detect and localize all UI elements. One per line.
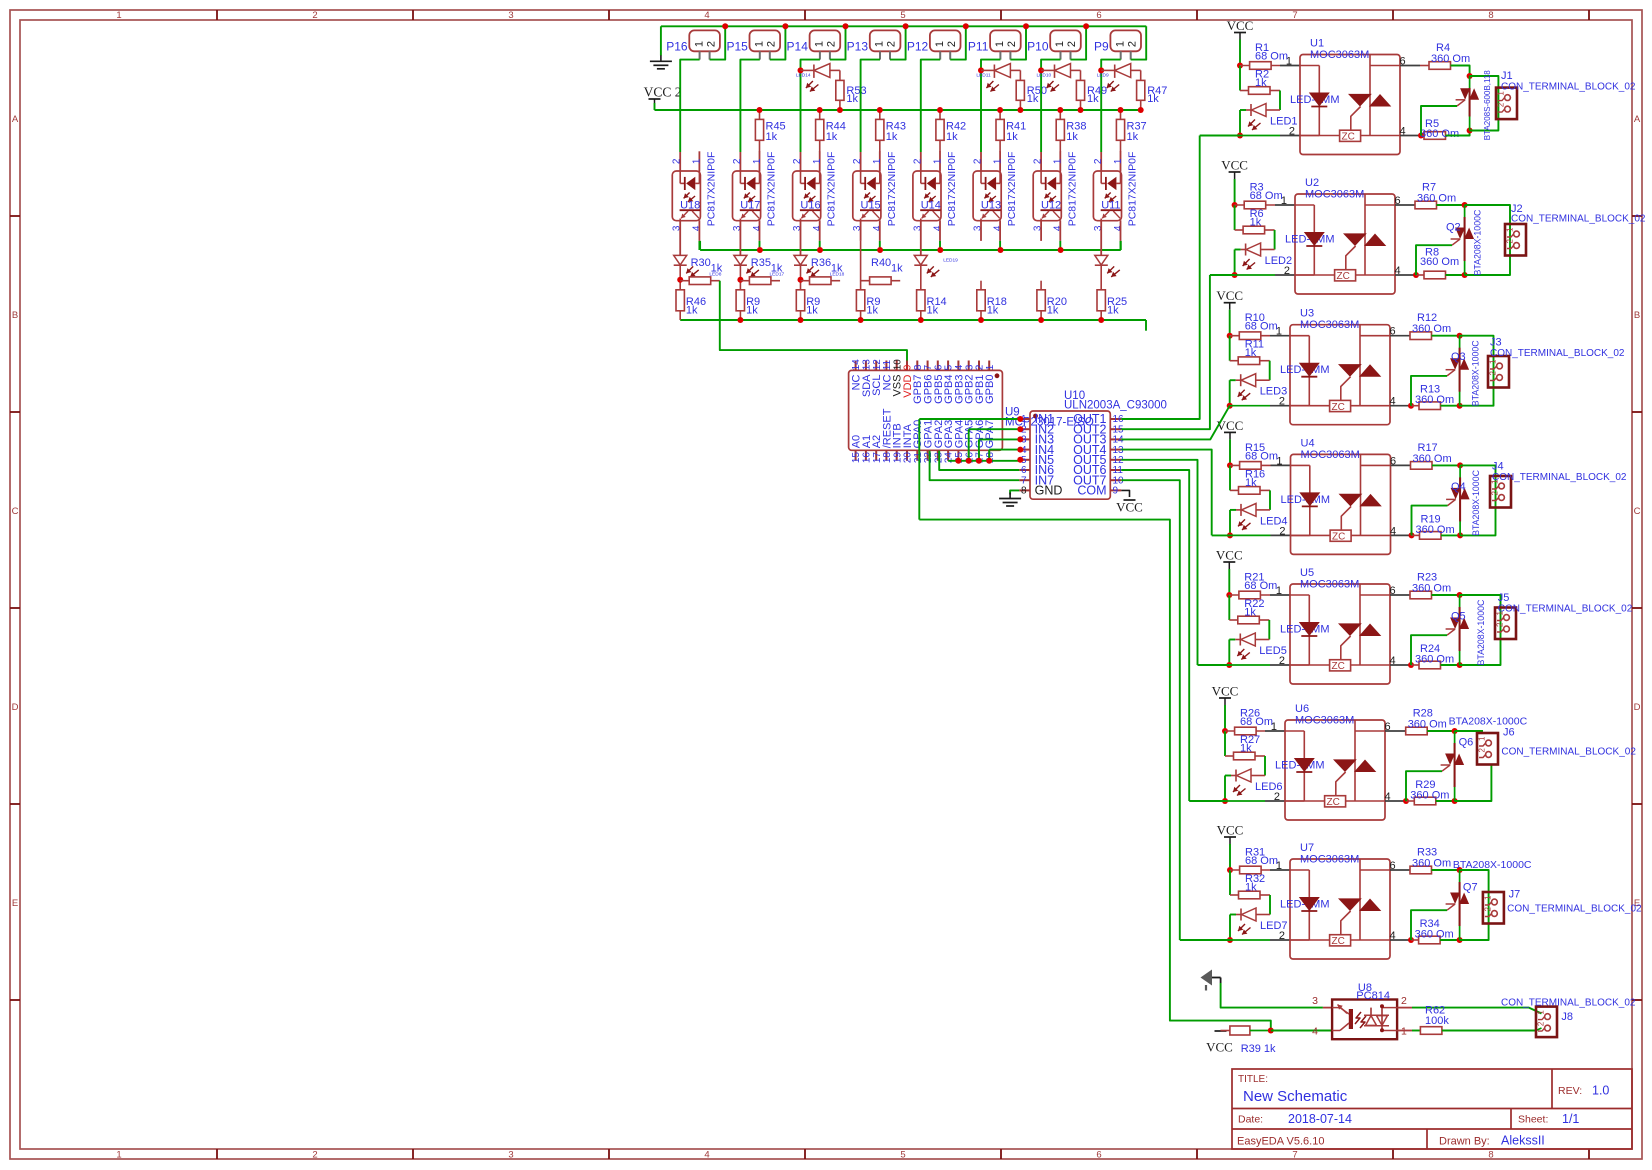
svg-text:68 Om: 68 Om [1255,51,1288,63]
svg-text:U6: U6 [1295,703,1309,715]
svg-text:2: 2 [946,41,958,47]
svg-text:J5: J5 [1498,592,1510,604]
svg-text:ZC: ZC [1327,797,1340,808]
svg-text:360 Om: 360 Om [1410,790,1449,802]
svg-text:LED9: LED9 [1097,72,1109,78]
svg-text:GPA7: GPA7 [984,420,996,449]
svg-text:2018-07-14: 2018-07-14 [1288,1112,1352,1126]
svg-text:VCC: VCC [1116,500,1143,515]
svg-text:360 Om: 360 Om [1417,193,1456,205]
svg-text:68 Om: 68 Om [1240,716,1273,728]
svg-text:J1: J1 [1501,70,1513,82]
svg-text:AlekssII: AlekssII [1501,1134,1545,1148]
svg-text:PC817X2NIP0F: PC817X2NIP0F [1006,152,1018,227]
svg-text:6: 6 [1400,56,1406,68]
svg-text:6: 6 [1390,585,1396,597]
svg-text:PC817X2NIP0F: PC817X2NIP0F [705,152,717,227]
svg-text:1k: 1k [927,305,939,317]
svg-text:B: B [12,310,18,321]
svg-text:Sheet:: Sheet: [1518,1114,1548,1126]
svg-text:Q4: Q4 [1451,481,1466,493]
svg-text:P11: P11 [968,40,989,54]
svg-text:ZC: ZC [1337,271,1350,282]
svg-text:PC817X2NIP0F: PC817X2NIP0F [886,152,898,227]
svg-text:PC817X2NIP0F: PC817X2NIP0F [1126,152,1138,227]
svg-text:6: 6 [1096,1150,1101,1161]
svg-text:2: 2 [1033,158,1044,164]
svg-text:2: 2 [1006,41,1018,47]
svg-text:1: 1 [1114,41,1126,47]
svg-text:2: 2 [912,158,923,164]
svg-text:2: 2 [852,158,863,164]
svg-text:1k: 1k [1255,77,1267,89]
svg-text:J3: J3 [1490,337,1502,349]
svg-text:MOC3063M: MOC3063M [1300,854,1359,866]
svg-text:1k: 1k [891,263,903,275]
svg-text:ZC: ZC [1332,661,1345,672]
svg-text:MOC3063M: MOC3063M [1300,579,1359,591]
svg-text:1: 1 [812,158,823,164]
svg-text:2: 2 [1505,238,1514,243]
svg-text:LED17: LED17 [770,271,785,277]
svg-text:1k: 1k [1027,93,1039,105]
svg-text:U4: U4 [1301,437,1315,449]
svg-text:U5: U5 [1300,567,1314,579]
svg-text:1: 1 [814,41,826,47]
svg-text:2: 2 [1274,791,1280,803]
svg-text:2: 2 [312,10,317,21]
svg-text:Q5: Q5 [1451,611,1466,623]
svg-text:1: 1 [1276,860,1282,872]
svg-text:D: D [1634,702,1641,713]
svg-text:J6: J6 [1503,727,1515,739]
svg-text:4: 4 [812,225,823,231]
svg-text:ZC: ZC [1332,402,1345,413]
svg-text:1k: 1k [1087,93,1099,105]
svg-text:BTA208S-600B,118: BTA208S-600B,118 [1483,70,1492,141]
svg-text:6: 6 [1390,455,1396,467]
svg-text:4: 4 [1312,1026,1318,1038]
svg-text:VCC: VCC [1206,1040,1233,1055]
svg-text:2: 2 [312,1150,317,1161]
svg-text:CON_TERMINAL_BLOCK_02: CON_TERMINAL_BLOCK_02 [1492,472,1627,483]
svg-text:P12: P12 [907,40,929,54]
svg-text:R36: R36 [811,257,831,269]
svg-text:1: 1 [874,41,886,47]
svg-text:2: 2 [973,158,984,164]
svg-text:CON_TERMINAL_BLOCK_02: CON_TERMINAL_BLOCK_02 [1498,604,1633,615]
svg-text:1k: 1k [1250,217,1262,229]
svg-text:Q2: Q2 [1446,222,1461,234]
svg-text:2: 2 [1279,396,1285,408]
svg-text:2: 2 [1279,525,1285,537]
svg-text:1.0: 1.0 [1592,1084,1609,1098]
svg-text:2: 2 [1279,930,1285,942]
svg-text:3: 3 [508,1150,513,1161]
svg-text:CON_TERMINAL_BLOCK_02: CON_TERMINAL_BLOCK_02 [1501,82,1636,93]
svg-text:4: 4 [1390,525,1396,537]
svg-text:COM: COM [1077,484,1106,498]
svg-text:100k: 100k [1425,1015,1449,1027]
svg-text:2: 2 [1477,747,1486,752]
svg-text:7: 7 [1292,10,1297,21]
svg-text:1k: 1k [1006,131,1018,143]
svg-text:2: 2 [765,41,777,47]
svg-text:Drawn By:: Drawn By: [1439,1136,1490,1148]
svg-text:EasyEDA V5.6.10: EasyEDA V5.6.10 [1237,1136,1324,1148]
svg-text:1: 1 [753,41,765,47]
svg-text:360 Om: 360 Om [1415,929,1454,941]
svg-text:1: 1 [1505,227,1514,232]
svg-text:B: B [1634,310,1640,321]
svg-text:2: 2 [1495,622,1504,627]
svg-text:1: 1 [1401,1026,1407,1038]
svg-text:Q6: Q6 [1459,737,1474,749]
svg-text:360 Om: 360 Om [1415,654,1454,666]
svg-text:BTA208X-1000C: BTA208X-1000C [1476,599,1486,665]
svg-text:360 Om: 360 Om [1408,719,1447,731]
svg-text:1k: 1k [1240,743,1252,755]
svg-text:4: 4 [1113,225,1124,231]
svg-text:1/1: 1/1 [1562,1112,1579,1126]
svg-text:Q3: Q3 [1451,351,1466,363]
svg-text:LED8: LED8 [709,271,721,277]
svg-text:360 Om: 360 Om [1420,128,1459,140]
svg-text:3: 3 [1312,995,1318,1007]
svg-text:1k: 1k [1244,607,1256,619]
svg-text:C: C [1634,506,1641,517]
svg-text:1k: 1k [746,305,758,317]
svg-text:GND: GND [1035,484,1063,498]
svg-text:1: 1 [993,158,1004,164]
svg-text:1k: 1k [1127,131,1139,143]
svg-text:1: 1 [1276,455,1282,467]
svg-text:68 Om: 68 Om [1250,190,1283,202]
svg-text:68 Om: 68 Om [1245,855,1278,867]
svg-text:6: 6 [1096,10,1101,21]
svg-text:1k: 1k [866,305,878,317]
svg-text:J8: J8 [1561,1011,1573,1023]
svg-text:4: 4 [1053,225,1064,231]
svg-text:4: 4 [1400,126,1406,138]
svg-text:MOC3063M: MOC3063M [1295,715,1354,727]
svg-text:360 Om: 360 Om [1412,583,1451,595]
svg-text:1k: 1k [1245,347,1257,359]
svg-text:7: 7 [1292,1150,1297,1161]
svg-text:9: 9 [1113,486,1119,497]
svg-text:1: 1 [1488,359,1497,364]
svg-text:1: 1 [1271,721,1277,733]
svg-text:1k: 1k [766,131,778,143]
svg-text:LED18: LED18 [830,271,845,277]
svg-text:2: 2 [732,158,743,164]
svg-text:4: 4 [692,225,703,231]
svg-text:2: 2 [1536,1021,1545,1026]
svg-text:U7: U7 [1300,842,1314,854]
svg-text:2: 2 [1488,370,1497,375]
svg-text:GPB0: GPB0 [984,375,996,404]
svg-text:6: 6 [1395,195,1401,207]
svg-text:U1: U1 [1310,38,1324,50]
svg-text:VCC: VCC [1212,684,1239,699]
svg-text:1: 1 [1276,585,1282,597]
svg-text:5: 5 [900,10,905,21]
svg-text:68 Om: 68 Om [1245,450,1278,462]
svg-text:2: 2 [1126,41,1138,47]
svg-text:E: E [12,898,18,909]
svg-text:8: 8 [1488,1150,1493,1161]
svg-text:1k: 1k [946,131,958,143]
svg-text:360 Om: 360 Om [1420,256,1459,268]
svg-text:1: 1 [1281,195,1287,207]
svg-text:2: 2 [1284,265,1290,277]
svg-text:TITLE:: TITLE: [1238,1074,1268,1085]
svg-text:BTA208X-1000C: BTA208X-1000C [1449,715,1528,727]
svg-text:CON_TERMINAL_BLOCK_02: CON_TERMINAL_BLOCK_02 [1511,214,1646,225]
svg-text:R40: R40 [871,257,891,269]
svg-text:360 Om: 360 Om [1413,453,1452,465]
svg-text:6: 6 [1390,326,1396,338]
svg-text:1: 1 [1054,41,1066,47]
svg-text:4: 4 [1395,265,1401,277]
svg-text:MOC3063M: MOC3063M [1301,449,1360,461]
svg-text:1: 1 [985,364,996,370]
svg-text:360 Om: 360 Om [1431,53,1470,65]
svg-text:C: C [12,506,19,517]
svg-text:360 Om: 360 Om [1412,858,1451,870]
svg-text:1: 1 [934,41,946,47]
svg-text:New Schematic: New Schematic [1243,1088,1348,1105]
svg-text:2: 2 [672,158,683,164]
svg-text:4: 4 [1390,930,1396,942]
svg-text:4: 4 [1390,655,1396,667]
svg-text:1k: 1k [1107,305,1119,317]
svg-text:1k: 1k [1147,93,1159,105]
svg-text:R39 1k: R39 1k [1241,1043,1276,1055]
svg-text:2: 2 [1483,906,1492,911]
svg-text:2: 2 [792,158,803,164]
svg-text:5: 5 [900,1150,905,1161]
svg-text:2: 2 [1093,158,1104,164]
svg-text:P10: P10 [1027,40,1049,54]
svg-text:J7: J7 [1509,889,1521,901]
svg-text:4: 4 [704,1150,709,1161]
svg-text:REV:: REV: [1558,1085,1582,1097]
svg-text:1k: 1k [1245,477,1257,489]
svg-text:CON_TERMINAL_BLOCK_02: CON_TERMINAL_BLOCK_02 [1490,348,1625,359]
svg-text:LED19: LED19 [943,258,958,264]
svg-text:1: 1 [1113,158,1124,164]
svg-text:1: 1 [752,158,763,164]
svg-text:2: 2 [1289,126,1295,138]
svg-text:8: 8 [1488,10,1493,21]
svg-text:MOC3063M: MOC3063M [1305,189,1364,201]
svg-text:2: 2 [826,41,838,47]
svg-text:1k: 1k [987,305,999,317]
svg-text:360 Om: 360 Om [1415,394,1454,406]
svg-text:A: A [1634,114,1641,125]
svg-text:BTA208X-1000C: BTA208X-1000C [1471,469,1481,535]
svg-text:P14: P14 [787,40,809,54]
svg-text:CON_TERMINAL_BLOCK_02: CON_TERMINAL_BLOCK_02 [1501,746,1636,757]
svg-text:68 Om: 68 Om [1245,321,1278,333]
svg-text:4: 4 [1390,396,1396,408]
svg-text:1k: 1k [1245,882,1257,894]
svg-text:A: A [12,114,19,125]
svg-text:1: 1 [1477,736,1486,741]
svg-text:4: 4 [1385,791,1391,803]
svg-text:2: 2 [1496,102,1505,107]
svg-text:LED10: LED10 [1037,72,1052,78]
svg-text:2: 2 [886,41,898,47]
svg-text:PC817X2NIP0F: PC817X2NIP0F [766,152,778,227]
svg-text:6: 6 [1390,860,1396,872]
svg-text:1k: 1k [886,131,898,143]
svg-text:4: 4 [872,225,883,231]
svg-text:3: 3 [508,10,513,21]
svg-text:1: 1 [1286,56,1292,68]
svg-text:U3: U3 [1300,308,1314,320]
svg-text:8: 8 [1021,486,1027,497]
svg-text:1: 1 [1053,158,1064,164]
svg-text:J4: J4 [1492,461,1504,473]
svg-text:ZC: ZC [1342,132,1355,143]
svg-text:1: 1 [872,158,883,164]
svg-text:2: 2 [1066,41,1078,47]
svg-text:4: 4 [752,225,763,231]
svg-text:P15: P15 [726,40,748,54]
svg-text:VCC: VCC [1216,288,1243,303]
svg-text:VCC: VCC [1221,158,1248,173]
svg-text:2: 2 [705,41,717,47]
svg-text:4: 4 [993,225,1004,231]
svg-text:1k: 1k [826,131,838,143]
svg-text:BTA208X-1000C: BTA208X-1000C [1453,859,1532,871]
svg-text:6: 6 [1385,721,1391,733]
svg-text:2: 2 [1279,655,1285,667]
svg-text:1: 1 [932,158,943,164]
svg-text:1k: 1k [846,93,858,105]
svg-text:LED14: LED14 [796,72,811,78]
svg-text:P16: P16 [666,40,688,54]
svg-text:PC817X2NIP0F: PC817X2NIP0F [826,152,838,227]
svg-text:BTA208X-1000C: BTA208X-1000C [1471,340,1481,406]
svg-text:MOC3063M: MOC3063M [1310,49,1369,61]
svg-text:1k: 1k [806,305,818,317]
svg-text:2: 2 [1401,995,1407,1007]
svg-text:1: 1 [1276,326,1282,338]
svg-text:LED11: LED11 [976,72,991,78]
svg-text:VCC 2: VCC 2 [644,85,682,100]
svg-text:Date:: Date: [1238,1114,1263,1126]
svg-text:VCC: VCC [1217,823,1244,838]
svg-text:3: 3 [1093,225,1104,231]
svg-text:4: 4 [704,10,709,21]
svg-text:MOC3063M: MOC3063M [1300,319,1359,331]
svg-text:360 Om: 360 Om [1416,524,1455,536]
svg-text:ZC: ZC [1332,936,1345,947]
svg-text:1k: 1k [1066,131,1078,143]
svg-text:VCC: VCC [1227,18,1254,33]
svg-text:CON_TERMINAL_BLOCK_02: CON_TERMINAL_BLOCK_02 [1507,903,1642,914]
svg-text:1k: 1k [686,305,698,317]
svg-text:1: 1 [116,10,121,21]
svg-text:U2: U2 [1305,177,1319,189]
svg-text:CON_TERMINAL_BLOCK_02: CON_TERMINAL_BLOCK_02 [1501,998,1636,1009]
svg-text:P9: P9 [1094,40,1109,54]
svg-text:R35: R35 [751,257,771,269]
svg-text:1: 1 [994,41,1006,47]
svg-text:ZC: ZC [1332,532,1345,543]
svg-text:D: D [12,702,19,713]
svg-text:VCC: VCC [1216,548,1243,563]
svg-text:PC817X2NIP0F: PC817X2NIP0F [946,152,958,227]
svg-text:1: 1 [1536,1010,1545,1015]
svg-text:1k: 1k [1047,305,1059,317]
svg-text:PC817X2NIP0F: PC817X2NIP0F [1066,152,1078,227]
svg-text:R30: R30 [691,257,711,269]
svg-text:1: 1 [693,41,705,47]
svg-text:PC814: PC814 [1356,990,1390,1002]
svg-text:1: 1 [1483,895,1492,900]
svg-text:2: 2 [1490,490,1499,495]
svg-text:ULN2003A_C93000: ULN2003A_C93000 [1064,399,1167,411]
svg-text:P13: P13 [847,40,869,54]
svg-text:1: 1 [692,158,703,164]
svg-text:68 Om: 68 Om [1244,580,1277,592]
svg-text:1: 1 [116,1150,121,1161]
svg-text:Q7: Q7 [1463,882,1478,894]
svg-text:360 Om: 360 Om [1412,323,1451,335]
svg-text:BTA208X-1000C: BTA208X-1000C [1473,209,1483,275]
svg-text:4: 4 [932,225,943,231]
